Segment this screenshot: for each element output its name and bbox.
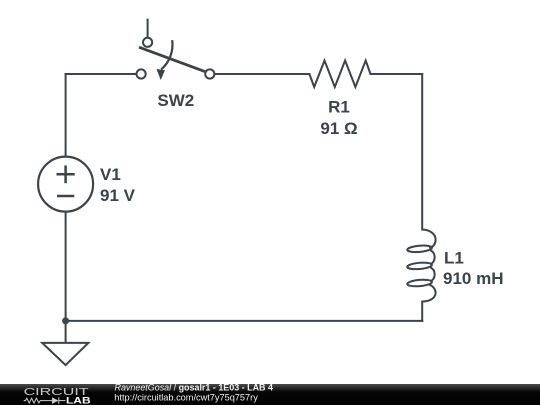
wire left vertical lower bbox=[65, 212, 67, 321]
wire right vertical upper bbox=[421, 74, 423, 230]
svg-text:V1: V1 bbox=[100, 165, 121, 184]
svg-text:910 mH: 910 mH bbox=[443, 269, 503, 288]
svg-text:LAB: LAB bbox=[66, 395, 91, 405]
svg-text:RavneetGosal / gosalr1 - 1E03: RavneetGosal / gosalr1 - 1E03 - LAB 4 bbox=[115, 382, 273, 392]
wire ground stub bbox=[65, 321, 67, 343]
wire resistor to corner bbox=[371, 73, 423, 75]
wire switch to resistor bbox=[215, 73, 310, 75]
switch SW2 bbox=[137, 19, 215, 79]
switch arrowhead bbox=[157, 69, 166, 80]
svg-text:L1: L1 bbox=[444, 248, 464, 267]
inductor L1 bbox=[407, 230, 436, 302]
wire right vertical lower bbox=[421, 302, 423, 321]
wire left vertical upper bbox=[65, 74, 67, 157]
svg-text:R1: R1 bbox=[328, 98, 350, 117]
ground bbox=[42, 343, 88, 365]
wire bottom horizontal bbox=[66, 320, 423, 322]
junction dot node bbox=[62, 317, 69, 324]
wire top-left horizontal bbox=[66, 73, 137, 75]
svg-text:91 Ω: 91 Ω bbox=[320, 119, 357, 138]
voltage source V1 bbox=[38, 157, 93, 212]
logo squiggle resistor+diode bbox=[24, 397, 66, 403]
svg-text:SW2: SW2 bbox=[157, 91, 194, 110]
resistor R1 bbox=[309, 61, 370, 88]
svg-text:http://circuitlab.com/cwt7y75q: http://circuitlab.com/cwt7y75q757ry bbox=[114, 393, 258, 403]
svg-text:91 V: 91 V bbox=[100, 186, 136, 205]
